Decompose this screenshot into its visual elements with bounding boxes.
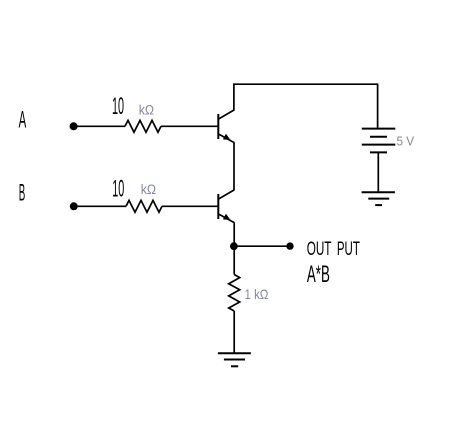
wire R2 to Q2 base [162,205,218,207]
wire input B to R2 [78,205,126,207]
svg-text:kΩ: kΩ [139,102,154,118]
ground (output resistor) [218,353,251,366]
svg-text:5 V: 5 V [397,134,415,149]
svg-text:1 kΩ: 1 kΩ [245,286,269,302]
wire R1 to Q1 base [161,125,218,127]
wire input A to R1 [78,125,126,127]
svg-text:PUT: PUT [337,239,360,260]
svg-text:B: B [19,178,26,206]
svg-text:10: 10 [112,92,124,119]
transistor Q1 [218,110,234,143]
wire Q2 emitter down [233,222,235,246]
resistor R3 [229,275,240,312]
wire battery to ground [377,152,379,192]
wire junction to R3 [233,246,235,274]
output terminal [286,242,293,249]
resistor R1 [125,120,161,132]
input terminal A [70,122,78,130]
wire Q1 emitter to Q2 collector [233,142,235,190]
wire R3 to ground [233,311,235,353]
svg-text:A: A [19,106,27,133]
wire Q1 collector up [233,83,235,110]
wire rail down to battery [377,84,379,128]
svg-text:OUT: OUT [307,239,332,259]
svg-text:A*B: A*B [307,261,330,288]
svg-text:10: 10 [112,174,124,201]
OUT PUT label [307,239,360,260]
ground (battery) [362,192,395,205]
input terminal B [70,202,78,210]
wire top rail [233,83,378,85]
resistor R2 [126,200,162,212]
battery BT1 5V [362,129,396,153]
junction node [230,242,238,250]
svg-text:kΩ: kΩ [141,181,156,197]
transistor Q2 [218,190,234,223]
wire junction to output [234,245,290,247]
